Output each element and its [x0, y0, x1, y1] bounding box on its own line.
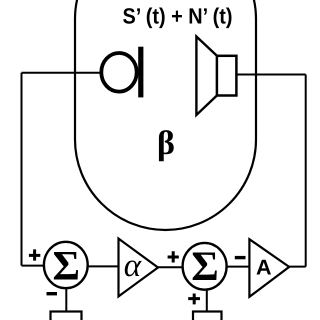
wire alpha to S2	[158, 266, 183, 268]
wire left vertical	[21, 73, 23, 266]
wire left to sum1	[22, 265, 45, 267]
wire S2 down to block	[206, 290, 208, 313]
minus sign at S2 right input	[235, 256, 246, 259]
minus sign at S1 bottom	[47, 292, 58, 295]
block under S1	[51, 312, 82, 320]
svg-text:A: A	[256, 255, 272, 279]
plus sign at S2 left input	[168, 251, 179, 262]
microphone M	[101, 53, 136, 92]
block under S2	[193, 312, 222, 320]
wire S2 to amp A	[227, 266, 251, 268]
wire right vertical	[305, 75, 307, 267]
svg-text:S’ (t) + N’ (t): S’ (t) + N’ (t)	[123, 4, 233, 29]
wire S1 down to block	[65, 288, 67, 312]
amplifier alpha	[119, 239, 159, 297]
summer S1	[44, 242, 88, 288]
wire right to amp A apex	[289, 266, 306, 268]
microphone plate	[138, 47, 143, 98]
amplifier A	[249, 239, 289, 297]
wire S1 to alpha	[88, 265, 120, 267]
loudspeaker horn	[196, 37, 217, 116]
svg-text:α: α	[124, 248, 142, 284]
loudspeaker driver	[217, 56, 237, 96]
plant boundary beta (stadium outline)	[75, 0, 256, 230]
wire speaker to right	[236, 74, 305, 76]
wire mic to left	[22, 72, 102, 74]
plus sign at S1 input	[29, 249, 40, 260]
svg-text:Σ: Σ	[191, 244, 218, 290]
plus sign at S2 bottom	[188, 294, 200, 305]
svg-text:Σ: Σ	[52, 244, 79, 290]
svg-text:β: β	[157, 125, 175, 162]
summer S2	[183, 243, 227, 290]
